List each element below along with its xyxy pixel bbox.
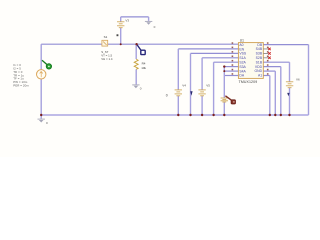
no-connect X marks bbox=[268, 48, 271, 59]
svg-text:0: 0 bbox=[154, 25, 156, 29]
wire V3 bottom lead bbox=[120, 28, 122, 45]
current marker below V6 bbox=[287, 93, 289, 96]
wire U1 EN run bbox=[178, 48, 238, 50]
wire S1B column with V6 bbox=[289, 62, 291, 115]
switch S1 value text bbox=[101, 50, 113, 61]
svg-text:S3B: S3B bbox=[256, 52, 263, 56]
wire shared S3A S4A DA column with V7 bbox=[223, 67, 225, 115]
wire S2A column bbox=[213, 62, 215, 115]
junction at V3 node bbox=[120, 43, 122, 45]
wire U1 S2A run bbox=[214, 61, 239, 63]
junction bus at GND column bbox=[274, 114, 276, 116]
wire U1 A1 run bbox=[263, 75, 270, 77]
svg-text:TMUX1209: TMUX1209 bbox=[239, 80, 258, 84]
wire horizontal runs bbox=[41, 17, 308, 76]
junction bus at A1 column bbox=[269, 114, 271, 116]
svg-text:V6: V6 bbox=[296, 78, 300, 82]
wire V3 top lead bbox=[120, 17, 122, 22]
voltage probe green bbox=[42, 60, 47, 64]
current source I1 circle bbox=[37, 70, 46, 79]
svg-text:0: 0 bbox=[166, 93, 168, 97]
no-connect stubs S4B S3B S2B bbox=[263, 49, 268, 58]
svg-text:V5: V5 bbox=[206, 83, 210, 87]
junction bus at VDD column bbox=[280, 114, 282, 116]
junction S3A at shared column bbox=[223, 65, 225, 67]
source parameter text block bbox=[13, 63, 29, 87]
IC U1 left pin names bbox=[239, 43, 247, 78]
svg-text:A1: A1 bbox=[258, 74, 262, 78]
wire ground stub near V3 bbox=[148, 17, 150, 21]
junction bus at VSS column bbox=[189, 114, 191, 116]
svg-text:S1B: S1B bbox=[256, 60, 263, 64]
svg-text:EN: EN bbox=[239, 47, 244, 51]
wire U1 S1B run bbox=[263, 61, 289, 63]
svg-text:GND: GND bbox=[255, 69, 263, 73]
wire DB right column bbox=[308, 45, 310, 115]
IC U1 right pin names bbox=[255, 43, 263, 78]
wire EN column with V4 bbox=[177, 49, 179, 115]
plus mark near V3 bbox=[117, 34, 119, 36]
wire U1 DA run bbox=[224, 75, 238, 77]
wire U1 S1A run bbox=[202, 57, 238, 59]
svg-text:10k: 10k bbox=[141, 66, 146, 70]
wire U1 S4A run bbox=[224, 70, 238, 72]
svg-text:S1A: S1A bbox=[239, 56, 246, 60]
junction bus at source column bbox=[40, 114, 42, 116]
wire V3 top to ground run bbox=[121, 16, 149, 18]
svg-text:VH = 1.4: VH = 1.4 bbox=[101, 57, 113, 61]
svg-text:S3A: S3A bbox=[239, 65, 246, 69]
probe dark red at battery V7 bbox=[225, 96, 231, 100]
wire bus ground stub bbox=[40, 115, 42, 119]
wire main net I1 to S1 bbox=[41, 43, 102, 45]
svg-text:PER = 20m: PER = 20m bbox=[13, 83, 29, 87]
junction at resistor node bbox=[135, 43, 137, 45]
IC U1 body bbox=[238, 43, 263, 79]
svg-text:S4A: S4A bbox=[239, 69, 246, 73]
svg-text:DB: DB bbox=[257, 43, 262, 47]
svg-text:V3: V3 bbox=[125, 19, 129, 23]
wire A1 column bbox=[269, 76, 271, 116]
svg-text:0: 0 bbox=[140, 86, 142, 90]
ground 0 at bus left bbox=[38, 119, 45, 122]
junction bus at EN column bbox=[177, 114, 179, 116]
pin number marks U1 bbox=[232, 42, 269, 74]
ground 0 below resistor bbox=[132, 85, 139, 88]
switch S1 box bbox=[102, 40, 108, 46]
battery V6 bbox=[286, 82, 293, 88]
svg-text:VDD: VDD bbox=[255, 65, 263, 69]
ground 0 near V3 bbox=[145, 21, 152, 24]
svg-text:S2A: S2A bbox=[239, 61, 246, 65]
svg-text:S4B: S4B bbox=[256, 47, 263, 51]
junction bus at shared column bbox=[223, 114, 225, 116]
battery V5 bbox=[198, 90, 205, 96]
wire left source column bbox=[40, 44, 42, 115]
junction bus at S2A column bbox=[212, 114, 214, 116]
wire main net S1 to U1 pin A0 bbox=[108, 43, 239, 45]
wire U1 S3A run bbox=[224, 66, 238, 68]
current marker on VSS column bbox=[190, 91, 192, 96]
wire U1 VSS run bbox=[191, 52, 239, 54]
wire resistor lower lead bbox=[135, 69, 137, 84]
svg-text:DA: DA bbox=[239, 74, 244, 78]
wire U1 VDD run bbox=[263, 66, 281, 68]
svg-text:S2B: S2B bbox=[256, 56, 263, 60]
resistor R4 bbox=[134, 59, 138, 69]
wire S1A column with V5 bbox=[201, 58, 203, 115]
svg-text:S1: S1 bbox=[104, 35, 108, 39]
battery V4 bbox=[175, 90, 182, 96]
wire bottom ground bus bbox=[41, 114, 308, 116]
junction S4A at shared column bbox=[223, 70, 225, 72]
svg-text:VSS: VSS bbox=[239, 52, 247, 56]
svg-text:A0: A0 bbox=[239, 43, 243, 47]
svg-text:V4: V4 bbox=[182, 83, 186, 87]
wire resistor upper lead bbox=[135, 44, 137, 59]
probe navy at node bbox=[137, 45, 141, 50]
wire U1 GND run bbox=[263, 70, 275, 72]
svg-text:0: 0 bbox=[46, 121, 48, 125]
wire VDD column bbox=[280, 67, 282, 115]
battery V7 shared column bbox=[221, 98, 228, 102]
junction bus at S1B column bbox=[288, 114, 290, 116]
svg-text:R4: R4 bbox=[142, 61, 146, 65]
battery V3 bbox=[117, 22, 124, 28]
junction bus at S1A column bbox=[201, 114, 203, 116]
svg-text:U1: U1 bbox=[240, 38, 244, 42]
wire U1 DB run bbox=[263, 44, 308, 46]
wire GND column bbox=[274, 71, 276, 115]
wire vertical runs bbox=[41, 17, 308, 119]
wire VSS column bbox=[190, 53, 192, 115]
